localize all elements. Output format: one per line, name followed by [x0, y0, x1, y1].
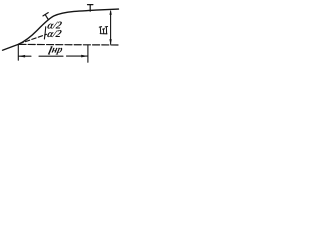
svg-text:α/2: α/2 [46, 29, 63, 40]
svg-text:lнр: lнр [47, 43, 64, 57]
